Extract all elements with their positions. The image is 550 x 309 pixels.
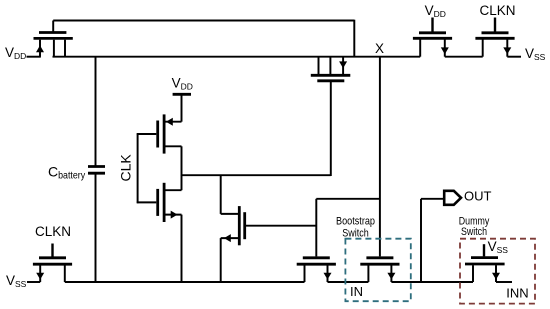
capacitor C_battery bbox=[88, 167, 105, 174]
transistor M6 (top-right, gate VDD) bbox=[413, 18, 452, 57]
OUT pin symbol bbox=[444, 191, 461, 205]
wire bottom rail segment 3 (OUT node) bbox=[391, 281, 473, 283]
svg-text:CLK: CLK bbox=[117, 154, 133, 182]
wire boost rail (y=56.7) from T1 terminals to T2 left terminal bbox=[53, 56, 421, 58]
transistor M7t (top-right, gate CLKN) bbox=[475, 18, 514, 57]
wire top rail from T1 gate to middle vertical bbox=[53, 20, 354, 22]
wire OUT vertical bbox=[420, 199, 422, 282]
gate stub M9 bbox=[483, 244, 485, 256]
wire M7t to VSS bbox=[507, 56, 521, 58]
channel bar M2 bbox=[163, 114, 166, 153]
gate bar M7t bbox=[482, 31, 509, 34]
wire VSS to M8b bbox=[27, 281, 40, 283]
wire M6 to M7t bbox=[445, 56, 483, 58]
drain terminal M4 with down arrow bbox=[342, 57, 344, 74]
source wire M3 (bottom) with right arrow bbox=[165, 214, 182, 216]
bootstrap switch dashed box bbox=[345, 239, 410, 302]
capacitor C_battery vertical wire top bbox=[95, 57, 97, 166]
transistor M8 (bootstrap right) bbox=[360, 258, 399, 282]
wire C_battery bottom to bottom rail bbox=[95, 174, 97, 282]
transistor M9 (dummy switch) bbox=[465, 244, 505, 282]
gate bar M1 bbox=[39, 31, 66, 34]
right terminal M8b bbox=[64, 265, 66, 282]
transistor M7 (bootstrap left) bbox=[297, 258, 336, 282]
channel bar M1 bbox=[34, 37, 73, 40]
wire VDD to M1 source bbox=[27, 56, 41, 58]
drain terminal M1 bbox=[64, 40, 66, 57]
wire OUT horizontal bbox=[421, 198, 444, 200]
gate bar M8 bbox=[366, 256, 393, 259]
transistor M8b (bottom-left, gate CLKN) bbox=[33, 244, 72, 283]
drain wire M5 (top) bbox=[221, 213, 239, 215]
right terminal M9 with down arrow bbox=[495, 265, 497, 282]
wire vertical from top rail down to node X rail bbox=[353, 20, 355, 57]
gate bar M4 bbox=[317, 79, 344, 82]
drain wire M2 bbox=[165, 145, 182, 147]
wire M5 source down to bottom rail bbox=[220, 238, 222, 282]
gate bar M2 bbox=[156, 121, 159, 148]
bulk terminal M1 bbox=[53, 40, 55, 57]
wire M5 drain up to output wire bbox=[220, 175, 222, 214]
channel bar M8b bbox=[33, 263, 72, 266]
wire node X vertical down to M8 gate bbox=[379, 57, 381, 257]
channel bar M3 bbox=[163, 183, 166, 222]
svg-text:OUT: OUT bbox=[464, 188, 492, 203]
wire M3 source down to bottom rail bbox=[181, 215, 183, 282]
gate bar M3 bbox=[156, 189, 159, 216]
left terminal M9 bbox=[472, 265, 474, 282]
svg-text:Switch: Switch bbox=[342, 227, 369, 239]
wire VDD bar down to M2 source bbox=[181, 94, 183, 121]
left terminal M8b with down arrow to VSS bbox=[39, 265, 41, 282]
wire inverter output to M4 gate riser bbox=[182, 174, 331, 176]
channel bar M7 bbox=[297, 263, 336, 266]
wire bottom rail segment 1 bbox=[65, 281, 305, 283]
svg-text:CLKN: CLKN bbox=[35, 224, 71, 239]
left terminal M4 bbox=[318, 57, 320, 74]
wire M2 drain down to output node bbox=[181, 146, 183, 176]
svg-text:X: X bbox=[375, 41, 384, 56]
gate bar M9 bbox=[471, 256, 498, 259]
bulk terminal M4 bbox=[329, 57, 331, 74]
gate wire M3 bbox=[137, 201, 157, 203]
gate bar M6 bbox=[419, 31, 446, 34]
transistor M2 (inverter PMOS) bbox=[137, 114, 182, 153]
right terminal M8 with down arrow bbox=[390, 265, 392, 282]
gate stub M7t bbox=[494, 18, 496, 33]
transistor M4 (inverted, below boost rail) bbox=[311, 57, 351, 81]
left terminal M8 bbox=[367, 265, 369, 282]
wire CLK bus vertical bbox=[137, 133, 139, 203]
wire riser up to M4 gate bbox=[330, 82, 332, 176]
channel bar M5 bbox=[238, 206, 241, 245]
channel bar M6 bbox=[413, 37, 452, 40]
transistor M3 (inverter NMOS) bbox=[137, 183, 182, 222]
gate bar M5 bbox=[243, 212, 246, 239]
channel bar M9 bbox=[465, 263, 505, 266]
svg-text:CLKN: CLKN bbox=[480, 3, 516, 18]
drain wire M3 (top) bbox=[165, 189, 182, 191]
VDD T-bar (inverter supply) bbox=[173, 93, 191, 96]
gate stub M1 bbox=[52, 21, 54, 33]
wire X branch horizontal to M7 gate riser bbox=[316, 198, 380, 200]
source wire M5 (bottom) with left arrow bbox=[221, 237, 239, 239]
source terminal M1 with up arrow bbox=[39, 40, 41, 57]
gate bar M7 bbox=[303, 256, 330, 259]
wire M5 gate branch bbox=[246, 225, 316, 227]
left terminal M7 bbox=[304, 265, 306, 282]
left terminal M6 bbox=[419, 40, 421, 57]
gate stub M6 bbox=[431, 18, 433, 33]
wire M3 drain up to output node bbox=[181, 175, 183, 190]
right terminal M6 with down arrow bbox=[444, 40, 446, 57]
channel bar M4 bbox=[311, 74, 351, 77]
wire M7 gate riser vertical bbox=[315, 199, 317, 257]
channel bar M7t bbox=[475, 37, 514, 40]
dummy switch dashed box bbox=[460, 239, 535, 304]
gate bar M8b bbox=[39, 256, 66, 259]
right terminal M7 with down arrow bbox=[327, 265, 329, 282]
transistor M1 (top-left, VDD switch) bbox=[34, 21, 73, 57]
wire bottom rail segment 4 (INN node) bbox=[496, 281, 512, 283]
left terminal M7t bbox=[482, 40, 484, 57]
svg-text:INN: INN bbox=[506, 286, 528, 301]
transistor M5 (mirrored vertical NMOS) bbox=[221, 206, 245, 245]
svg-text:Switch: Switch bbox=[461, 226, 487, 238]
channel bar M8 bbox=[360, 263, 399, 266]
svg-text:Bootstrap: Bootstrap bbox=[336, 216, 375, 228]
right terminal M7t with down arrow bbox=[506, 40, 508, 57]
gate wire M2 bbox=[137, 133, 157, 135]
wire bottom rail segment 2 (IN node) bbox=[328, 281, 369, 283]
gate stub M8b bbox=[51, 244, 53, 257]
source wire M2 with left arrow bbox=[165, 121, 182, 123]
svg-text:IN: IN bbox=[350, 284, 363, 299]
